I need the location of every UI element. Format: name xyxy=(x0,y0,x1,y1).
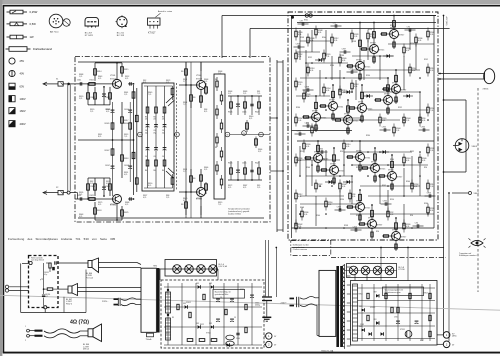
pinout BC207 xyxy=(85,17,99,37)
legend 40V xyxy=(9,70,24,76)
legend 160V xyxy=(9,108,26,114)
transistor VT901 xyxy=(346,22,370,81)
svg-text:R6: R6 xyxy=(193,97,195,99)
transistor VT912 xyxy=(346,189,370,222)
svg-text:R958: R958 xyxy=(344,225,348,227)
svg-text:100V: 100V xyxy=(20,97,26,101)
svg-text:R934: R934 xyxy=(366,135,370,137)
heatsink eye xyxy=(469,238,486,247)
svg-text:220V~: 220V~ xyxy=(281,302,288,304)
transistor VT904 xyxy=(320,147,344,185)
svg-text:R6: R6 xyxy=(153,116,155,118)
svg-text:R936: R936 xyxy=(340,55,344,57)
svg-text:R951: R951 xyxy=(359,294,363,296)
svg-text:4,7k: 4,7k xyxy=(166,82,169,84)
svg-text:C934: C934 xyxy=(297,131,301,133)
psu right feeds xyxy=(355,247,409,281)
svg-text:VD912: VD912 xyxy=(186,302,191,304)
transistor VT902 xyxy=(304,140,328,173)
svg-text:R953: R953 xyxy=(424,293,428,295)
svg-text:R950: R950 xyxy=(390,159,394,161)
speaker BL806 xyxy=(88,258,99,273)
svg-text:KT315: KT315 xyxy=(365,67,370,69)
svg-text:R94: R94 xyxy=(356,215,359,217)
svg-text:R957: R957 xyxy=(420,340,424,342)
psu left terminals xyxy=(264,333,277,348)
svg-text:R936: R936 xyxy=(424,203,428,205)
headphone loop xyxy=(443,99,466,173)
svg-text:C611: C611 xyxy=(77,80,81,82)
interbox wire B xyxy=(270,60,284,232)
lamps2 frame xyxy=(347,264,397,278)
svg-text:AB 7πκн: AB 7πκн xyxy=(50,30,59,33)
svg-text:C938: C938 xyxy=(305,87,309,89)
svg-text:4,7k: 4,7k xyxy=(98,78,101,80)
filter left drop xyxy=(20,263,22,312)
lamps1 frame xyxy=(165,260,217,277)
svg-text:2,7k: 2,7k xyxy=(218,73,221,75)
svg-text:T50mA: T50mA xyxy=(146,338,153,341)
transistor VT915 xyxy=(382,69,406,104)
svg-text:8,7k: 8,7k xyxy=(98,136,101,138)
impedance caption xyxy=(70,320,89,326)
aux connector xyxy=(452,192,480,196)
transistor VT909 xyxy=(302,95,326,132)
svg-text:R625: R625 xyxy=(124,212,128,214)
svg-text:R6: R6 xyxy=(162,116,164,118)
svg-text:C6: C6 xyxy=(145,156,147,158)
svg-text:VD9: VD9 xyxy=(359,306,362,308)
input jog ch2 xyxy=(75,193,78,199)
svg-text:7,2k: 7,2k xyxy=(430,110,433,112)
legend 63V xyxy=(9,83,24,89)
svg-text:4,7k: 4,7k xyxy=(183,200,186,202)
filter mid parts xyxy=(40,263,58,290)
legend resistor Draht xyxy=(6,47,53,52)
elco ground xyxy=(262,301,271,322)
svg-text:R96: R96 xyxy=(410,215,413,217)
svg-text:0,2k: 0,2k xyxy=(306,146,309,148)
svg-text:VD9: VD9 xyxy=(374,292,377,294)
svg-text:R912: R912 xyxy=(300,151,304,153)
node L xyxy=(175,132,180,137)
svg-text:VD9: VD9 xyxy=(209,323,212,325)
svg-text:3,7k: 3,7k xyxy=(258,151,261,153)
svg-text:Vielfachmesser gem.: Vielfachmesser gem. xyxy=(385,291,402,294)
svg-text:8,2k: 8,2k xyxy=(390,214,393,216)
svg-text:R914: R914 xyxy=(368,29,372,31)
svg-text:Ansicht v. unten: Ansicht v. unten xyxy=(158,10,172,13)
svg-text:47µ: 47µ xyxy=(145,132,148,134)
svg-text:Spannungsangaben mit: Spannungsangaben mit xyxy=(385,289,404,292)
svg-text:4,7k: 4,7k xyxy=(125,204,128,206)
input arrow 2 xyxy=(43,191,58,195)
svg-text:VD9: VD9 xyxy=(209,283,212,285)
svg-text:C92: C92 xyxy=(333,23,336,25)
svg-text:0,2k: 0,2k xyxy=(326,90,329,92)
svg-text:R6105: R6105 xyxy=(105,123,110,125)
svg-text:R952: R952 xyxy=(424,59,428,61)
preamp channel2 input stage xyxy=(75,178,128,221)
preamp out ch2 xyxy=(228,161,262,181)
svg-text:2,7k: 2,7k xyxy=(257,187,260,189)
lamps2 caption xyxy=(399,267,405,271)
terminal plus xyxy=(437,332,457,339)
svg-text:160V: 160V xyxy=(20,109,26,113)
svg-text:VT901: VT901 xyxy=(356,59,362,61)
svg-text:4000µ: 4000µ xyxy=(255,305,260,307)
svg-text:R6: R6 xyxy=(145,116,147,118)
elco risers xyxy=(266,240,269,296)
power wiring xyxy=(296,30,434,229)
svg-text:0,7k: 0,7k xyxy=(228,187,231,189)
svg-text:3,2k: 3,2k xyxy=(430,34,433,36)
preamp mid rail xyxy=(78,102,134,178)
psu left parts xyxy=(164,283,262,347)
svg-text:VT912: VT912 xyxy=(356,200,362,202)
input jack 1 xyxy=(56,78,75,86)
svg-text:C9: C9 xyxy=(234,317,236,319)
svg-text:6,7k: 6,7k xyxy=(249,118,252,120)
svg-text:geändertem Wert: geändertem Wert xyxy=(215,293,229,296)
svg-text:C6: C6 xyxy=(153,156,155,158)
svg-text:0,2k: 0,2k xyxy=(422,120,425,122)
svg-text:BC 313: BC 313 xyxy=(117,35,125,37)
svg-text:VT921: VT921 xyxy=(206,333,211,335)
svg-text:2,2k: 2,2k xyxy=(396,130,399,132)
svg-text:2,7k: 2,7k xyxy=(166,197,169,199)
filter cluster xyxy=(44,261,56,276)
svg-text:R624: R624 xyxy=(97,210,101,212)
svg-text:R6: R6 xyxy=(145,170,147,172)
svg-text:4,2k: 4,2k xyxy=(406,50,409,52)
svg-text:R976: R976 xyxy=(390,25,394,27)
svg-text:R6: R6 xyxy=(181,71,183,73)
svg-text:R946: R946 xyxy=(306,167,310,169)
feedback box xyxy=(214,74,225,199)
svg-text:1W: 1W xyxy=(30,35,34,39)
svg-text:R615: R615 xyxy=(124,69,128,71)
svg-text:1,7k: 1,7k xyxy=(79,76,82,78)
svg-text:0,7k: 0,7k xyxy=(124,174,127,176)
svg-text:R922: R922 xyxy=(410,151,414,153)
tone pot arrow top xyxy=(166,96,175,106)
lamp HL4 xyxy=(209,265,218,274)
svg-text:Drahtwiderstand: Drahtwiderstand xyxy=(33,47,52,51)
svg-text:C6151: C6151 xyxy=(44,272,49,274)
speaker BL807 xyxy=(68,284,78,296)
svg-text:R920: R920 xyxy=(340,199,344,201)
svg-text:R952: R952 xyxy=(382,185,386,187)
svg-text:3,2k: 3,2k xyxy=(304,214,307,216)
svg-text:2,2k: 2,2k xyxy=(298,120,301,122)
svg-text:VT951: VT951 xyxy=(400,329,405,331)
right dashed drop xyxy=(477,88,479,292)
svg-text:2,2k: 2,2k xyxy=(406,120,409,122)
power rail right xyxy=(433,16,435,229)
svg-text:6,7k: 6,7k xyxy=(143,197,146,199)
svg-text:KT837: KT837 xyxy=(401,90,406,92)
legend resistor 0,25W xyxy=(7,10,38,14)
svg-text:R6: R6 xyxy=(193,178,195,180)
stage2 rails xyxy=(186,62,201,218)
bottom rail xyxy=(21,270,86,313)
wire right riser A xyxy=(443,15,445,332)
svg-text:6,2k: 6,2k xyxy=(418,40,421,42)
svg-text:4,2k: 4,2k xyxy=(342,186,345,188)
svg-text:R931: R931 xyxy=(166,333,170,335)
svg-text:5,7k: 5,7k xyxy=(204,81,207,83)
svg-text:6,2k: 6,2k xyxy=(318,32,321,34)
node M xyxy=(225,132,230,137)
filter out top xyxy=(57,262,88,264)
transistor VT903 xyxy=(360,22,384,64)
preamp value labels xyxy=(79,71,262,218)
mains2 wavy xyxy=(300,297,315,307)
svg-text:6,2k: 6,2k xyxy=(406,160,409,162)
transformer1 caption xyxy=(321,349,334,352)
svg-text:8,7k: 8,7k xyxy=(148,185,151,187)
svg-text:Heiße Lötstelle: Heiße Lötstelle xyxy=(31,256,43,259)
svg-text:R627: R627 xyxy=(255,112,259,114)
preamp caption xyxy=(228,208,250,216)
tone feed lines xyxy=(132,83,138,200)
net label vertical xyxy=(445,16,447,26)
power resistors xyxy=(295,26,435,233)
svg-text:R625: R625 xyxy=(228,112,232,114)
svg-text:5,7k: 5,7k xyxy=(228,93,231,95)
svg-text:1,2k: 1,2k xyxy=(314,130,317,132)
filter terminal bottom xyxy=(44,306,47,313)
tone control box xyxy=(142,83,174,191)
svg-text:400V: 400V xyxy=(20,122,26,126)
svg-text:KT315: KT315 xyxy=(353,121,358,123)
psu right box xyxy=(351,281,438,346)
transistor VT911 xyxy=(348,84,372,123)
svg-text:R617: R617 xyxy=(124,120,128,122)
svg-text:4W 0,5: 4W 0,5 xyxy=(83,349,89,351)
svg-text:C951: C951 xyxy=(394,317,398,319)
transistor VT917 xyxy=(334,99,358,135)
svg-text:VT915: VT915 xyxy=(392,82,398,84)
svg-text:4,7k: 4,7k xyxy=(125,78,128,80)
svg-text:C926: C926 xyxy=(427,193,431,195)
svg-text:VT905: VT905 xyxy=(390,27,396,29)
input shield pair xyxy=(68,85,70,192)
riser join xyxy=(442,331,444,335)
svg-text:R618: R618 xyxy=(124,158,128,160)
svg-text:0,2k: 0,2k xyxy=(310,70,313,72)
svg-text:0,2k: 0,2k xyxy=(406,226,409,228)
svg-text:VT913: VT913 xyxy=(384,93,390,95)
svg-text:47µ: 47µ xyxy=(153,132,156,134)
terminal minus xyxy=(437,341,455,348)
svg-text:TS901 T1,25A: TS901 T1,25A xyxy=(321,349,334,352)
power value labels xyxy=(296,25,428,233)
headphone jack xyxy=(453,139,478,153)
svg-text:VT917: VT917 xyxy=(344,113,350,115)
svg-text:VD9: VD9 xyxy=(359,326,362,328)
power bus low xyxy=(292,214,435,228)
svg-text:7,7k: 7,7k xyxy=(124,136,127,138)
svg-text:XS6/2: XS6/2 xyxy=(474,193,480,195)
svg-text:0,25W: 0,25W xyxy=(30,10,38,14)
transformer1 primary box xyxy=(319,270,336,336)
svg-text:3,2k: 3,2k xyxy=(334,40,337,42)
svg-text:VT909: VT909 xyxy=(312,110,318,112)
speaker BL807 caption xyxy=(66,299,72,306)
svg-text:40V: 40V xyxy=(20,72,25,76)
svg-text:C953: C953 xyxy=(360,324,364,326)
svg-text:6,2k: 6,2k xyxy=(352,196,355,198)
svg-text:R625: R625 xyxy=(228,163,232,165)
svg-text:R627: R627 xyxy=(255,163,259,165)
svg-text:7,7k: 7,7k xyxy=(257,93,260,95)
svg-text:R968: R968 xyxy=(300,207,304,209)
preamp mid rail2 xyxy=(230,120,270,148)
svg-text:C935: C935 xyxy=(382,127,386,129)
speaker capsule xyxy=(483,69,495,91)
svg-text:220V~: 220V~ xyxy=(102,301,109,303)
svg-text:7,7k: 7,7k xyxy=(218,204,221,206)
transformer1 core xyxy=(336,266,342,347)
scan margin top xyxy=(0,0,500,4)
node H xyxy=(138,132,143,137)
mains1 wavy xyxy=(121,298,136,306)
svg-text:VT601: VT601 xyxy=(110,75,115,77)
svg-text:R936: R936 xyxy=(382,89,386,91)
svg-text:1,7k: 1,7k xyxy=(124,94,127,96)
svg-text:2,7k: 2,7k xyxy=(183,171,186,173)
svg-text:VD9: VD9 xyxy=(196,323,199,325)
tone parts xyxy=(144,86,174,188)
svg-text:R952: R952 xyxy=(340,151,344,153)
svg-text:R613: R613 xyxy=(106,97,110,99)
speaker wires top xyxy=(438,73,484,80)
svg-text:VT903: VT903 xyxy=(370,42,376,44)
svg-text:25V: 25V xyxy=(20,59,25,63)
filter out mid xyxy=(58,288,68,290)
svg-text:2,7k: 2,7k xyxy=(79,194,82,196)
lamp HL7 xyxy=(373,266,382,275)
legend 100V xyxy=(9,96,26,102)
mains filter box xyxy=(29,256,59,308)
svg-text:KT3102: KT3102 xyxy=(196,199,202,201)
svg-text:R922: R922 xyxy=(200,324,204,326)
svg-text:2,7k: 2,7k xyxy=(90,183,93,185)
svg-text:0,5W: 0,5W xyxy=(30,22,37,26)
mains2 caption xyxy=(281,302,288,304)
wire top bus2 xyxy=(250,29,450,59)
preamp rails xyxy=(78,62,264,218)
svg-text:(36V): (36V) xyxy=(452,336,457,338)
input arrow 1 xyxy=(43,82,58,86)
svg-text:VD9: VD9 xyxy=(374,319,377,321)
svg-text:KT817: KT817 xyxy=(397,177,402,179)
node N xyxy=(242,131,247,136)
svg-text:R6107: R6107 xyxy=(105,150,110,152)
svg-text:R901: R901 xyxy=(304,20,308,22)
svg-text:0,7k: 0,7k xyxy=(106,111,109,113)
power bus top2 xyxy=(297,22,436,24)
svg-text:8,7k: 8,7k xyxy=(143,82,146,84)
lamps1 caption xyxy=(219,264,228,268)
filter lower parts xyxy=(42,289,51,306)
transformer2 primary box xyxy=(141,268,156,332)
svg-text:C934: C934 xyxy=(421,127,425,129)
mains2 plug xyxy=(290,297,299,307)
transistor VT914 xyxy=(358,204,382,239)
svg-text:2,7k: 2,7k xyxy=(90,111,93,113)
preamp box outline xyxy=(75,57,270,223)
svg-text:22k: 22k xyxy=(162,118,165,120)
svg-text:KT315: KT315 xyxy=(339,171,344,173)
power diodes xyxy=(315,54,413,183)
preamp couplers xyxy=(128,82,134,201)
svg-text:C6107: C6107 xyxy=(105,165,110,167)
transformer2 label xyxy=(146,333,154,341)
svg-text:R958: R958 xyxy=(300,37,304,39)
node P xyxy=(259,132,264,137)
svg-text:R96: R96 xyxy=(322,159,325,161)
svg-text:R6: R6 xyxy=(215,79,217,81)
svg-text:C6104: C6104 xyxy=(124,109,129,111)
legend 400V xyxy=(9,121,26,127)
svg-text:R9: R9 xyxy=(172,317,174,319)
psu right parts xyxy=(353,284,436,342)
power bottom bus xyxy=(292,247,445,249)
svg-text:2x2(1) mV/kΩ: 2x2(1) mV/kΩ xyxy=(228,214,241,216)
svg-text:4,7k: 4,7k xyxy=(98,204,101,206)
svg-text:C926: C926 xyxy=(353,227,357,229)
svg-text:VT908: VT908 xyxy=(371,161,377,163)
svg-text:C9: C9 xyxy=(220,297,222,299)
transistor VT905 xyxy=(380,15,404,49)
lamp HL8 xyxy=(385,266,394,275)
svg-text:8,2k: 8,2k xyxy=(430,210,433,212)
svg-text:R9: R9 xyxy=(166,292,168,294)
svg-text:VT910: VT910 xyxy=(388,169,394,171)
lamp HL2 xyxy=(185,265,194,274)
svg-text:R6: R6 xyxy=(181,204,183,206)
svg-text:R944: R944 xyxy=(322,37,326,39)
fold crease xyxy=(0,295,500,310)
lamps1 wire xyxy=(160,269,218,280)
pinout socket right xyxy=(116,15,128,37)
legend resistor 0,5W xyxy=(7,22,37,26)
svg-text:R954: R954 xyxy=(366,75,370,77)
svg-text:47µ: 47µ xyxy=(162,132,165,134)
svg-text:3,2k: 3,2k xyxy=(430,70,433,72)
svg-text:4,2k: 4,2k xyxy=(342,60,345,62)
svg-text:R90: R90 xyxy=(424,167,427,169)
svg-text:3,7k: 3,7k xyxy=(204,169,207,171)
svg-text:C6: C6 xyxy=(162,156,164,158)
interbox stubs xyxy=(277,62,283,230)
pinout KT817 xyxy=(148,18,161,35)
svg-text:2,2k: 2,2k xyxy=(430,150,433,152)
svg-text:VT904: VT904 xyxy=(330,163,336,165)
svg-text:2,2k: 2,2k xyxy=(298,84,301,86)
transistor VT906 xyxy=(346,140,370,172)
transistor VT916 xyxy=(382,217,406,251)
lamps2 wire xyxy=(344,270,397,272)
svg-text:R936: R936 xyxy=(296,107,300,109)
svg-text:KT817: KT817 xyxy=(399,35,404,37)
svg-text:C904: C904 xyxy=(236,338,240,340)
speaker BL906 caption xyxy=(83,344,89,351)
svg-text:R611: R611 xyxy=(90,80,94,82)
